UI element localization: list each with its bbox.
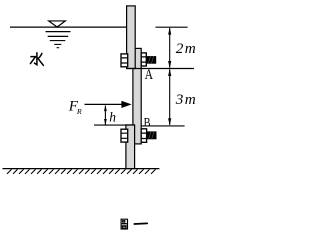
water surface symbol line 5 [57, 47, 60, 49]
bolt A left nut [121, 54, 128, 67]
svg-text:A: A [145, 67, 154, 83]
gate middle segment (between A and B) [133, 48, 141, 143]
ground hatching [7, 169, 156, 174]
water surface symbol line 2 [48, 35, 68, 37]
svg-text:m: m [185, 91, 196, 108]
ground line [3, 168, 160, 170]
water surface symbol triangle [49, 21, 66, 27]
post upper segment [127, 6, 136, 69]
dimension line h [104, 105, 107, 125]
bolt B left nut [121, 129, 128, 142]
svg-text:R: R [76, 107, 82, 116]
water surface symbol line 4 [54, 43, 61, 45]
water surface symbol line 3 [50, 40, 66, 42]
bolt B threaded shank [147, 131, 157, 139]
wire water surface line [10, 26, 127, 28]
water surface symbol line 1 [46, 31, 71, 33]
caption 一 (one), hand-drawn glyph [134, 222, 147, 225]
svg-text:3: 3 [175, 91, 184, 108]
caption 圖 (figure), hand-drawn glyph [121, 219, 127, 229]
dimension line 3 m [168, 69, 171, 126]
svg-text:m: m [185, 40, 196, 57]
node B level line left [94, 124, 135, 126]
svg-text:h: h [109, 109, 116, 124]
svg-text:2: 2 [176, 40, 184, 57]
post lower segment [126, 125, 135, 169]
bolt B right nut [141, 129, 146, 143]
label 水 (water), hand-drawn glyph [30, 53, 43, 66]
bolt A threaded shank [146, 56, 156, 64]
bolt A right nut [141, 53, 146, 66]
top reference line at water level [156, 26, 188, 28]
dimension line 2 m [168, 27, 171, 68]
node B level line right [141, 125, 184, 127]
node A level line [127, 68, 194, 70]
force arrow F_R [85, 101, 132, 108]
svg-text:B: B [144, 115, 151, 129]
